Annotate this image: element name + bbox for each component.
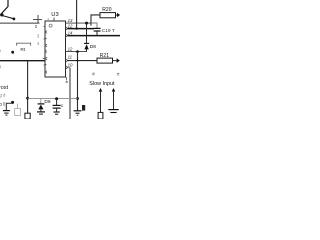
switch S1 wire from top [2, 0, 8, 13]
ground D9 bar2 [39, 113, 43, 115]
diode D9 triangle [38, 105, 43, 110]
capacitor C stem2 [56, 108, 58, 112]
wire vertical x70 down [69, 68, 71, 119]
blob glyph near C7 [82, 105, 85, 111]
wire vertical x76.5 from top [76, 0, 78, 29]
junction dot x56.5 y98.8 [55, 97, 58, 100]
capacitor x113.5 plate2 [110, 112, 116, 114]
capacitor C19 plate 1 [94, 27, 101, 29]
pin stub row y32 [45, 31, 47, 34]
pin stub row y51.5 [45, 51, 46, 53]
svg-text:14: 14 [68, 30, 73, 35]
wire R20 left [91, 15, 100, 26]
pin stub row y65 [43, 63, 46, 66]
wire pin14 row y35.5 thick [68, 35, 121, 37]
svg-text:Rt: Rt [20, 47, 25, 53]
wire T stub vertical x38 [37, 15, 39, 23]
pin stub row y72 [45, 71, 47, 74]
IC U3 top pin stub [53, 18, 55, 22]
pin stub row y58.5 [43, 57, 48, 60]
diode D9 cathode bar [38, 103, 45, 105]
svg-text:g d: g d [0, 92, 6, 97]
pin stub row y45.5 [45, 44, 47, 47]
junction dot x77.5 y98.5 [76, 97, 79, 100]
wire pin11 row y60.5 [68, 60, 98, 62]
connector box bottom x27.5 [25, 113, 30, 119]
tiny mark above slow input [92, 73, 94, 76]
svg-text:Slow Input: Slow Input [89, 81, 115, 87]
svg-text:rost: rost [0, 85, 9, 91]
resistor R21 [97, 58, 113, 63]
junction dot x12.5 y102 [11, 101, 14, 104]
wire net C horizontal y98.3 [28, 97, 78, 99]
switch S1 contact dot [13, 18, 16, 21]
wire vertical x77.5 down [77, 52, 79, 111]
wire net A horizontal y23 left [0, 22, 40, 24]
svg-text:11: 11 [68, 55, 73, 60]
diode D8 triangle [84, 44, 88, 49]
svg-text:12: 12 [68, 46, 73, 51]
capacitor C19 plate 2 [94, 30, 101, 32]
IC U3 bottom-right pin stub [66, 77, 68, 81]
IC U3 right pin chevron y35.5 [66, 34, 68, 37]
connector box x100.5 [98, 112, 103, 119]
op IC U3 body [45, 21, 66, 77]
IC U3 bottom pin mark [66, 81, 68, 83]
svg-text:C19 T: C19 T [102, 28, 115, 34]
wire x17.5 stub [17, 104, 19, 109]
arrow up x100.5 [99, 88, 103, 92]
ground C bar1 [53, 111, 59, 113]
capacitor C plate2 [53, 107, 61, 109]
pin stub row y39 [43, 38, 46, 39]
wire bottom-left corner [6, 103, 12, 110]
capacitor C19 drop wire [91, 23, 97, 28]
wire vertical x27.5 [27, 61, 29, 113]
wire x86.5 down to D8 [86, 23, 88, 43]
ground bottom-left bar [5, 114, 7, 116]
wire T stub horizontal y19.6 [33, 19, 42, 21]
component gray box x17.5 [15, 109, 21, 116]
junction dot x76.5 y28.5 [75, 27, 77, 29]
off-page arrow right y15 [117, 13, 120, 18]
wire pin12b row y51.5 [66, 51, 88, 53]
IC U3 index circle [49, 24, 52, 27]
resistor R20 [100, 13, 116, 18]
IC U3 top faint mark [48, 18, 50, 20]
ground x77.5 bar1 [74, 110, 82, 112]
junction dot x12.5 y52 [11, 51, 14, 54]
ground D9 bar1 [37, 111, 45, 113]
junction dot x77.5 y51.5 [76, 50, 79, 53]
wire pin10 row y67.5 [68, 67, 71, 69]
IC U3 right pin chevron y60.5 [66, 59, 68, 62]
svg-text:0: 0 [0, 102, 2, 108]
ground x77.5 bar2 [76, 112, 80, 114]
switch S1 pivot blob [0, 13, 3, 16]
capacitor bottom-left plate1 [3, 110, 10, 112]
pin stub row y26.5 [43, 26, 45, 28]
IC U3 right pin chevron y67.5 [66, 66, 68, 69]
capacitor x113.5 plate1 [108, 109, 118, 111]
svg-text:T: T [117, 72, 120, 77]
svg-text:12: 12 [68, 23, 73, 28]
wire pin12 row y28.5 thick [68, 28, 95, 30]
off-page arrow right y60.5 [117, 58, 120, 63]
wire R21 right [113, 60, 117, 62]
IC U3 left pins [43, 27, 48, 74]
junction dot x77.5 y60.5 [77, 60, 79, 62]
svg-text:D8: D8 [90, 44, 96, 50]
arrow up x113.5 [112, 88, 116, 92]
wire x113.5 down [113, 91, 115, 109]
svg-text:10: 10 [68, 63, 73, 68]
capacitor C plate1 [53, 104, 61, 106]
ground C bar2 [55, 113, 58, 115]
ground x77.5 bar3 [77, 114, 79, 116]
switch S1 blade [3, 16, 14, 19]
wire x100.5 down [100, 91, 102, 112]
wire net B horizontal y60.5 left [0, 60, 45, 62]
diode D8 cathode bar [84, 42, 89, 44]
junction dot x27.5 y98 [26, 97, 29, 100]
IC U3 right pin chevron y28.5 [66, 27, 68, 30]
diode D8 anode wire [86, 49, 88, 51]
junction dot x86.5 y23 [85, 22, 88, 25]
wire R20 right [116, 14, 118, 16]
capacitor bottom-left plate2 [4, 112, 8, 114]
resistor R1 partial box [17, 43, 31, 45]
capacitor C19 stem [96, 31, 98, 36]
diode D9 wire [40, 109, 42, 111]
diode D9 stub [40, 98, 42, 103]
capacitor C stem [56, 99, 58, 105]
svg-text:D9: D9 [44, 99, 50, 105]
wire pin13 row y23 [66, 22, 98, 24]
svg-text:U3: U3 [51, 12, 58, 18]
